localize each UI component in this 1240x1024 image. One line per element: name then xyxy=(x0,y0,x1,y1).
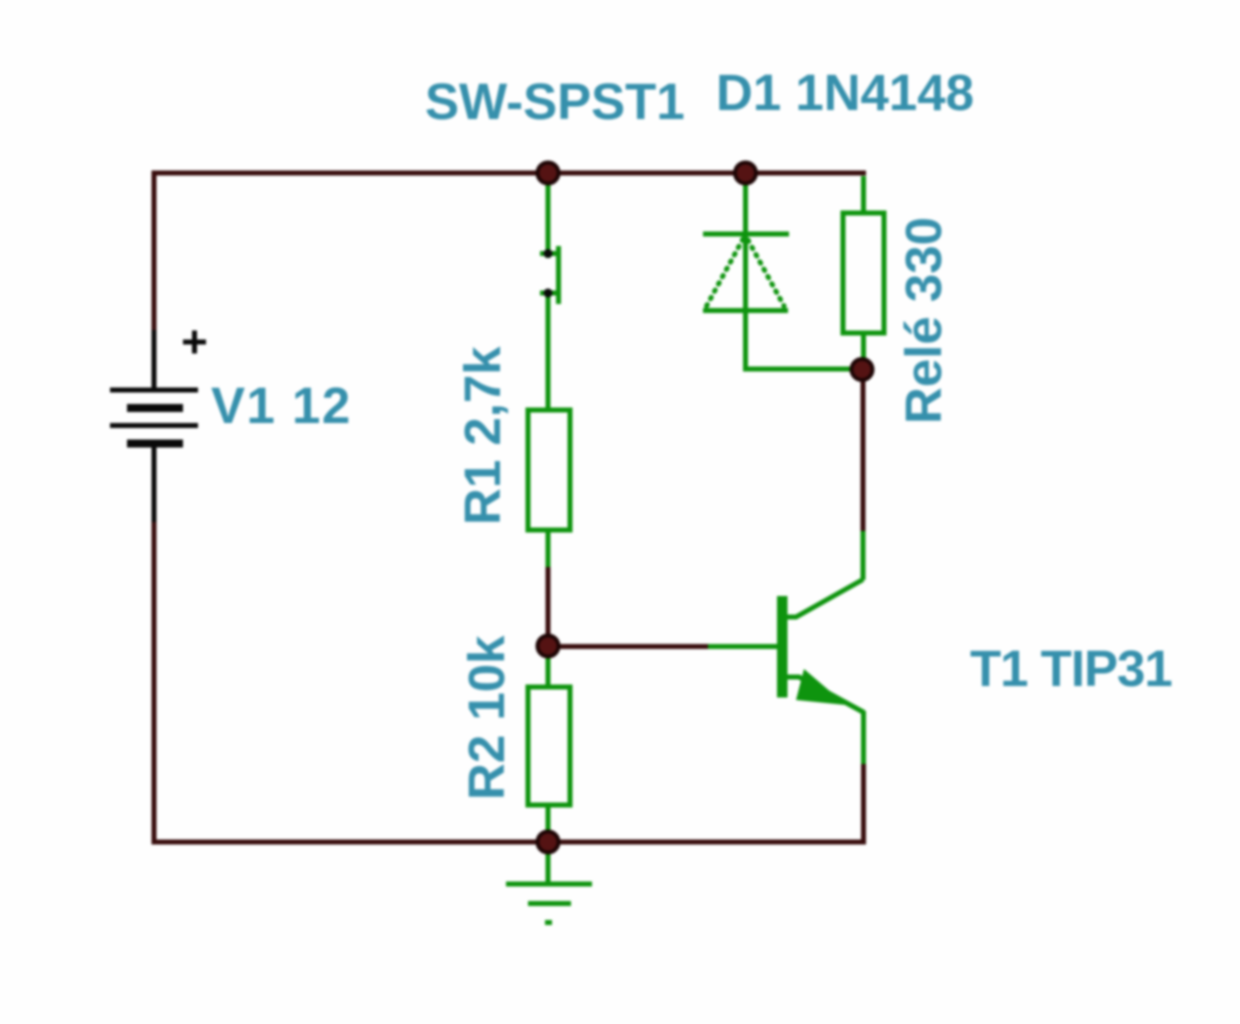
svg-text:T1 TIP31: T1 TIP31 xyxy=(970,640,1172,697)
ground bar 2 xyxy=(528,901,571,906)
wire left rail lower (battery - to bottom rail) xyxy=(152,522,157,844)
wire switch to R1 xyxy=(546,289,551,412)
svg-text:V1 12: V1 12 xyxy=(211,377,352,434)
battery V1 plate 1 (long positive plate) xyxy=(110,388,198,393)
diode D1 anode base bar xyxy=(703,308,788,313)
battery V1 plate 4 (short thick negative plate) xyxy=(127,440,183,448)
wire ground stub xyxy=(546,842,551,884)
wire relay node to collector (dark segment) xyxy=(861,369,866,533)
transistor T1 base bar xyxy=(777,596,788,698)
wire base node to transistor (dark segment) xyxy=(546,644,710,649)
switch SW-SPST1 blade xyxy=(556,246,561,304)
relay coil body (Relé 330) xyxy=(843,213,884,333)
battery V1 positive pin stub xyxy=(152,330,157,390)
wire diode top pin xyxy=(743,175,748,369)
ground bar 3 (dot) xyxy=(545,920,552,925)
junction node at diode top xyxy=(735,163,756,184)
junction node at switch top xyxy=(538,163,559,184)
wire top rail (V+ net) xyxy=(152,171,867,176)
svg-text:R1 2,7k: R1 2,7k xyxy=(454,346,511,525)
resistor R1 bottom pin stub xyxy=(546,530,551,567)
wire transistor base pin (green) xyxy=(708,644,778,649)
battery V1 plate 3 (long plate) xyxy=(110,423,198,428)
switch SW-SPST1 top pin dot xyxy=(544,249,553,258)
ground bar 1 xyxy=(506,882,592,887)
battery V1 plate 2 (short thick plate) xyxy=(127,404,183,412)
transistor T1 emitter arrowhead xyxy=(796,669,846,705)
wire base node to R2 xyxy=(546,644,551,689)
wire emitter pin vertical (green) xyxy=(861,711,866,766)
wire emitter to bottom rail (dark segment) xyxy=(861,764,866,844)
junction node at relay bottom xyxy=(852,359,873,380)
resistor R2 body xyxy=(528,687,570,805)
transistor T1 emitter diagonal xyxy=(786,677,864,713)
wire bottom rail (ground net) xyxy=(152,840,867,845)
svg-text:Relé 330: Relé 330 xyxy=(895,217,952,424)
junction node at ground rail xyxy=(538,832,559,853)
wire relay bottom pin xyxy=(861,333,866,369)
resistor R1 body xyxy=(528,410,570,530)
wire R1 to base node xyxy=(546,567,551,648)
wire collector pin vertical (green) xyxy=(861,531,866,580)
switch SW-SPST1 bottom contact tick xyxy=(540,291,558,296)
wire relay top pin xyxy=(861,176,866,215)
svg-text:D1 1N4148: D1 1N4148 xyxy=(716,64,974,121)
wire switch top pin xyxy=(546,175,551,258)
svg-text:R2 10k: R2 10k xyxy=(458,635,515,800)
wire R2 to bottom rail xyxy=(546,805,551,844)
wire left rail upper (battery + to top rail) xyxy=(152,171,157,331)
transistor T1 collector diagonal xyxy=(786,580,863,618)
diode D1 triangle left side (dashed) xyxy=(706,239,743,307)
battery V1 plus polarity mark xyxy=(183,331,206,354)
diode D1 triangle right side (dashed) xyxy=(748,240,784,306)
switch SW-SPST1 bottom pin dot xyxy=(544,289,553,298)
junction node at transistor base divider xyxy=(538,636,559,657)
battery V1 negative pin stub xyxy=(152,443,157,522)
diode D1 cathode bar xyxy=(703,232,789,237)
switch SW-SPST1 top contact tick xyxy=(540,251,558,256)
svg-text:SW-SPST1: SW-SPST1 xyxy=(425,73,685,130)
wire diode anode to relay node xyxy=(743,367,862,372)
